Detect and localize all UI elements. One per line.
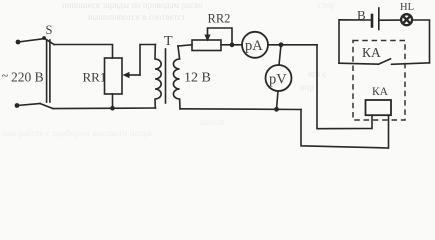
svg-text:КА: КА bbox=[372, 86, 389, 98]
svg-text:220 В: 220 В bbox=[11, 70, 44, 85]
switch S pivot dot bbox=[42, 36, 46, 40]
svg-text:КА: КА bbox=[362, 45, 381, 60]
svg-text:pV: pV bbox=[269, 72, 287, 88]
svg-text:нившиеся заряды по проводам ра: нившиеся заряды по проводам расхо bbox=[62, 0, 203, 10]
node RR1 bottom junction bbox=[110, 106, 115, 111]
transformer T secondary winding bbox=[173, 46, 180, 109]
contact KA blade bbox=[379, 59, 391, 64]
svg-text:RR1: RR1 bbox=[83, 70, 107, 85]
relay dashed enclosure bbox=[353, 41, 405, 121]
svg-text:pA: pA bbox=[245, 38, 263, 54]
terminal (plug) bottom bbox=[15, 103, 20, 108]
transformer T primary winding bbox=[155, 45, 161, 109]
wire pA rail down to relay coil lead 1 bbox=[317, 45, 372, 129]
paper background bbox=[0, 0, 435, 154]
wire pA to right bbox=[268, 44, 317, 46]
node pV top junction bbox=[279, 42, 284, 47]
svg-text:при работе с прибором высокого: при работе с прибором высокого напря bbox=[2, 128, 152, 138]
voltmeter pV bbox=[266, 65, 292, 91]
svg-text:12 В: 12 В bbox=[184, 71, 211, 86]
switch S bottom blade diagonal bbox=[40, 104, 53, 109]
wire RR2 right to meter bbox=[221, 44, 242, 46]
faint print bleed-through text bbox=[2, 0, 335, 138]
wire pV bottom lead bbox=[277, 91, 279, 109]
node RR2 wiper junction bbox=[230, 42, 235, 47]
wire bbox=[18, 39, 43, 42]
svg-text:~: ~ bbox=[2, 69, 9, 83]
relay coil KA body bbox=[366, 100, 392, 115]
lamp circuit loop left wire bbox=[339, 20, 372, 63]
svg-text:выполняются в соответст: выполняются в соответст bbox=[88, 12, 186, 22]
wire pV top lead bbox=[279, 45, 281, 65]
terminal (plug) top bbox=[16, 40, 21, 45]
battery B short plate bbox=[371, 15, 374, 27]
ammeter pA bbox=[242, 32, 268, 58]
wire secondary bottom long rail bbox=[180, 108, 301, 111]
wire bbox=[17, 104, 40, 106]
svg-text:T: T bbox=[164, 34, 173, 49]
resistor RR1 body bbox=[105, 58, 123, 94]
RR1 wiper arrow bbox=[126, 74, 140, 76]
svg-text:RR2: RR2 bbox=[208, 12, 231, 26]
contact KA right wire bbox=[392, 63, 430, 65]
transformer core bbox=[165, 49, 167, 103]
battery B long plate bbox=[378, 8, 380, 30]
lamp HL bbox=[401, 14, 412, 25]
svg-text:HL: HL bbox=[400, 2, 414, 13]
switch S top blade diagonal bbox=[44, 38, 54, 45]
resistor RR2 body bbox=[192, 40, 221, 51]
bottom rail wire bbox=[53, 107, 156, 110]
svg-text:S: S bbox=[46, 23, 53, 37]
switch S blades (double pole) bbox=[46, 40, 48, 102]
wire battery to lamp bbox=[379, 19, 401, 21]
wire down-right to relay coil lead 2 bbox=[301, 110, 389, 149]
svg-text:В: В bbox=[357, 8, 366, 23]
wire top rail to RR1 bbox=[54, 45, 113, 59]
contact KA left wire bbox=[339, 62, 379, 65]
wire secondary top to RR2 bbox=[178, 45, 192, 46]
RR2 wiper arrow and tie wire bbox=[208, 28, 233, 45]
svg-text:стор: стор bbox=[318, 0, 335, 10]
node pV bottom junction bbox=[274, 107, 279, 112]
wire RR1 bottom lead bbox=[112, 94, 114, 108]
wire lamp to right corner, down bbox=[412, 20, 429, 63]
svg-text:пор: пор bbox=[300, 82, 314, 92]
svg-text:вателя: вателя bbox=[200, 117, 224, 127]
wire wiper up and to transformer bbox=[140, 45, 156, 76]
